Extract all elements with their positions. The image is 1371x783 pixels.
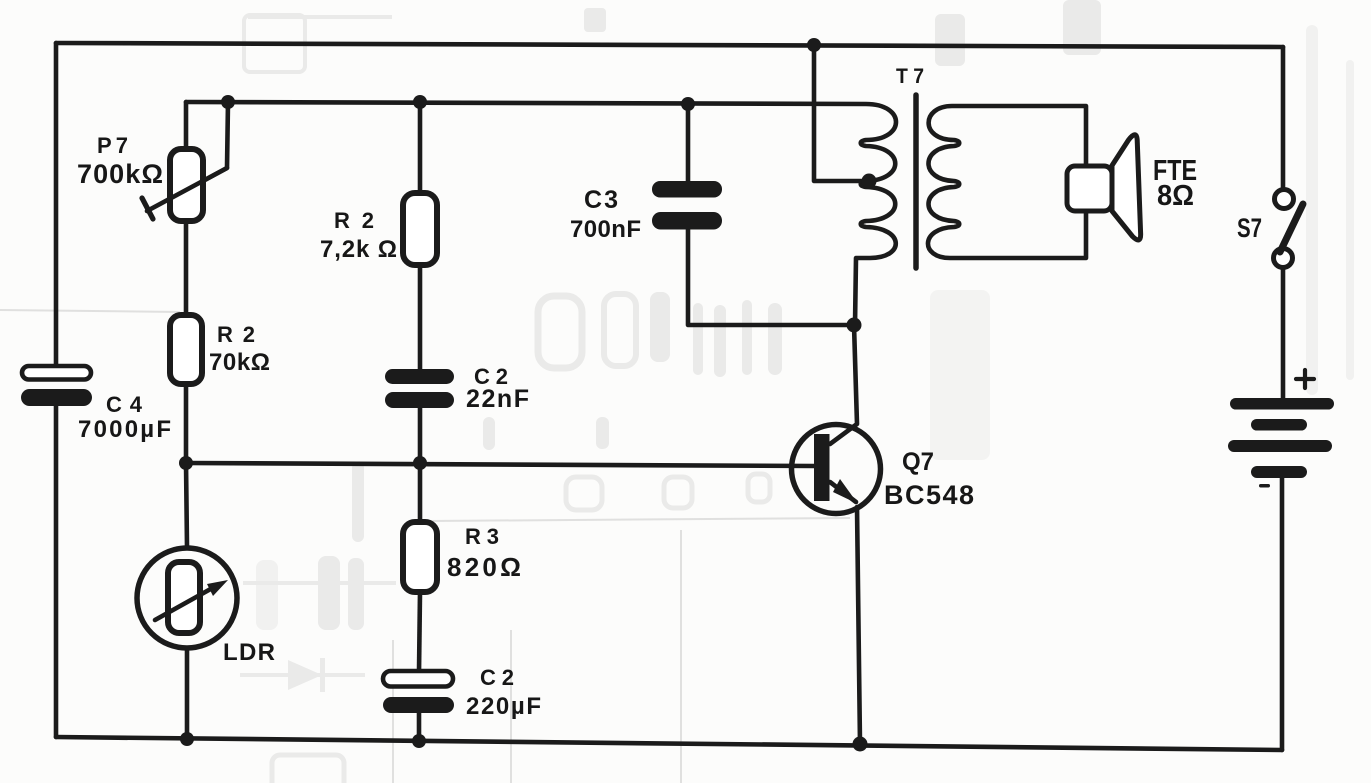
- svg-text:22nF: 22nF: [466, 385, 529, 413]
- svg-text:BC548: BC548: [884, 480, 974, 510]
- svg-text:7000µF: 7000µF: [78, 416, 171, 443]
- svg-text:P7: P7: [97, 133, 128, 158]
- svg-text:700kΩ: 700kΩ: [77, 159, 163, 189]
- svg-text:8Ω: 8Ω: [1157, 180, 1194, 212]
- svg-text:R2: R2: [217, 322, 255, 347]
- svg-text:C4: C4: [106, 392, 143, 417]
- svg-text:C3: C3: [584, 186, 618, 214]
- svg-text:220µF: 220µF: [466, 693, 541, 720]
- svg-text:700nF: 700nF: [570, 216, 641, 243]
- svg-text:C 2: C 2: [480, 665, 514, 690]
- svg-text:R 2: R 2: [334, 208, 374, 233]
- svg-text:T 7: T 7: [896, 65, 924, 88]
- svg-text:S7: S7: [1237, 213, 1262, 243]
- svg-text:R3: R3: [465, 524, 499, 549]
- svg-text:LDR: LDR: [223, 639, 275, 666]
- svg-text:820Ω: 820Ω: [447, 552, 521, 582]
- svg-text:Q7: Q7: [902, 448, 934, 476]
- svg-text:70kΩ: 70kΩ: [209, 349, 270, 376]
- svg-text:7,2k Ω: 7,2k Ω: [320, 236, 397, 263]
